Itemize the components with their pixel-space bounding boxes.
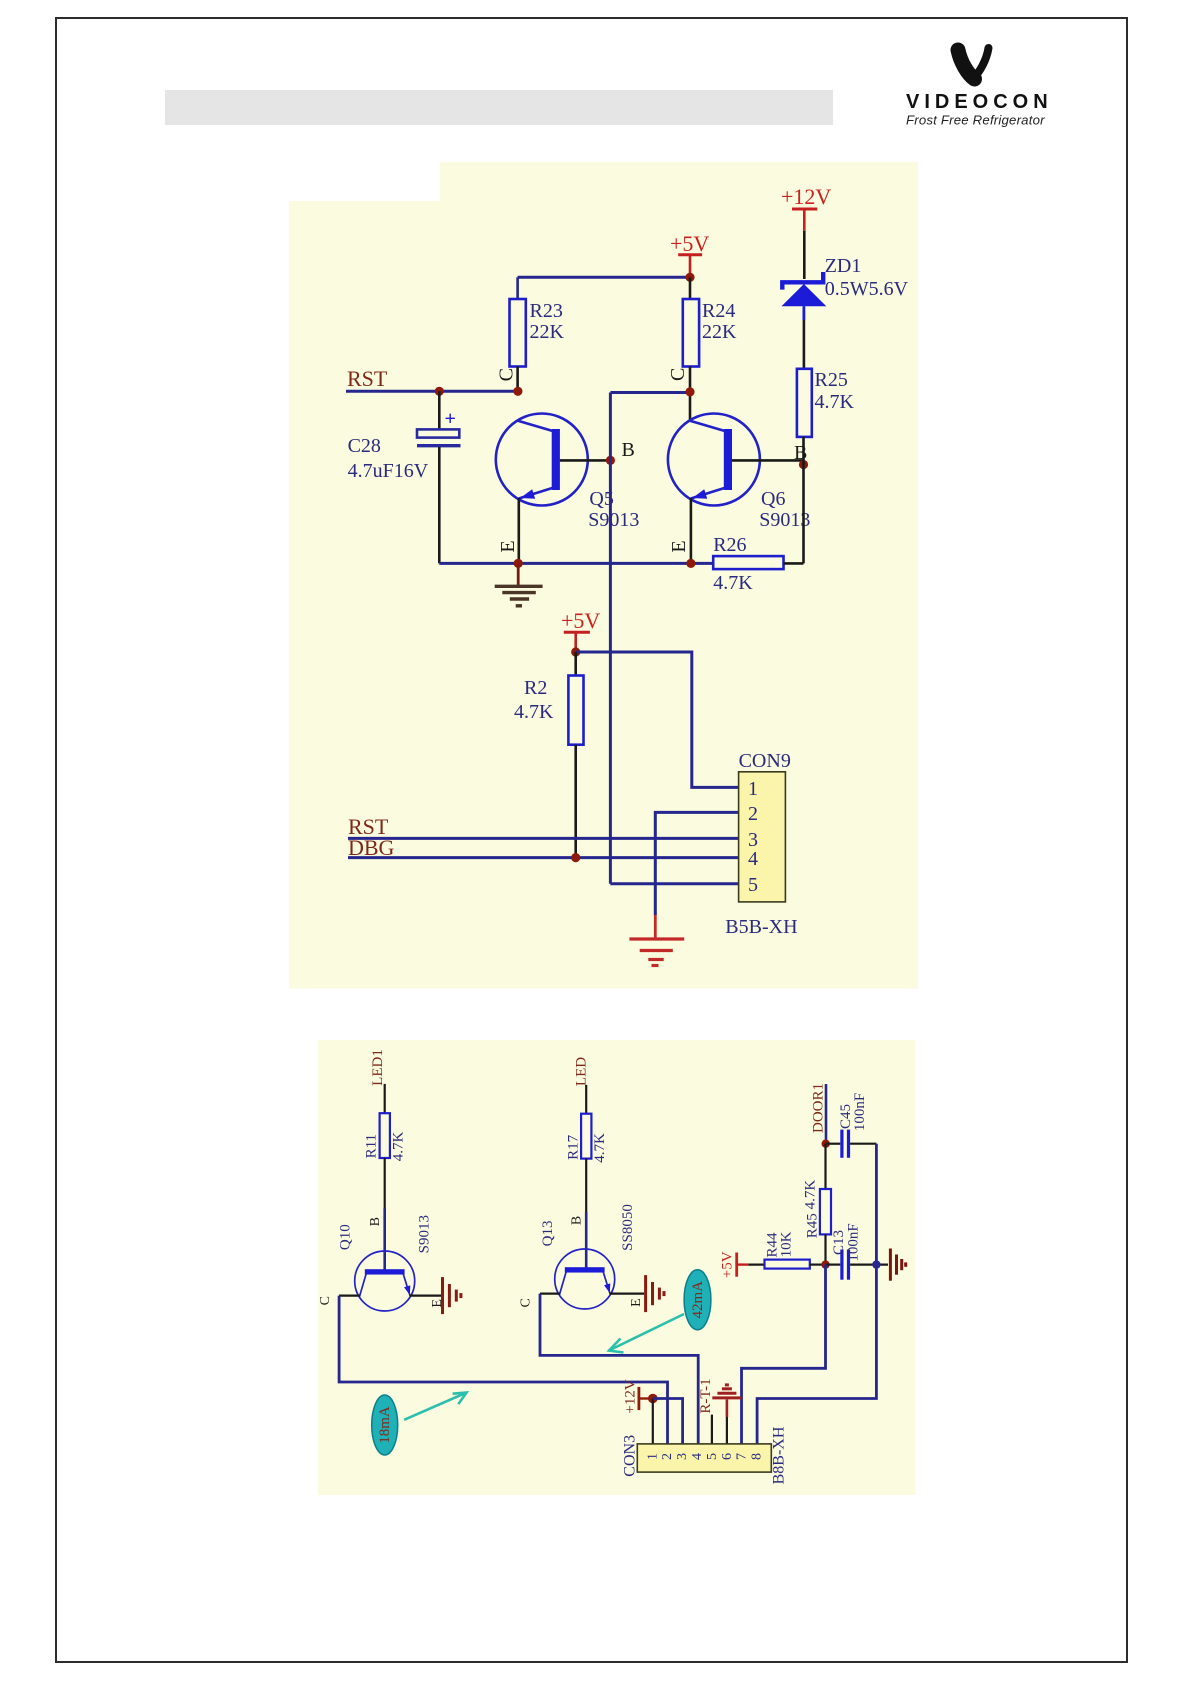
- svg-text:C: C: [518, 1298, 533, 1307]
- capacitor C13: [826, 1223, 889, 1279]
- annotation ellipse 18mA: [372, 1395, 398, 1455]
- ground at Q13 emitter: [646, 1275, 664, 1312]
- capacitor C28: [348, 408, 461, 482]
- svg-text:8: 8: [750, 1453, 765, 1460]
- wire Q5 base: [560, 459, 611, 462]
- resistor R44: [765, 1231, 810, 1268]
- wire Q5 emitter lead: [517, 498, 520, 563]
- wire R2 bottom lead: [574, 745, 577, 858]
- transistor Q6: [668, 414, 811, 532]
- wire cross coupling to Q6 collector: [610, 391, 690, 394]
- svg-text:2: 2: [748, 803, 758, 825]
- wire +5V rail: [518, 276, 690, 279]
- svg-text:R23: R23: [530, 300, 563, 322]
- svg-text:1: 1: [748, 778, 758, 800]
- node junction Q6 emitter: [686, 559, 695, 568]
- svg-text:C28: C28: [348, 435, 381, 457]
- node junction C13 / C45 return: [872, 1260, 880, 1268]
- svg-text:4.7K: 4.7K: [815, 391, 855, 413]
- svg-text:CON9: CON9: [739, 750, 791, 772]
- node junction RST / C28: [435, 387, 444, 396]
- wire DBG to CON9 pin4: [348, 856, 739, 859]
- node junction RST / Q5 collector: [513, 387, 522, 396]
- VIDEOCON logo V glyph: [958, 48, 989, 79]
- wire Q5 base vertical: [609, 393, 612, 884]
- svg-text:ZD1: ZD1: [825, 255, 862, 277]
- node +12V power symbol rotated: [622, 1379, 650, 1413]
- wire R11 to Q10 base: [384, 1158, 386, 1208]
- wire emitter rail: [439, 562, 713, 565]
- wire C45 right down to CON3 pin8: [757, 1144, 876, 1444]
- svg-text:100nF: 100nF: [852, 1093, 868, 1131]
- svg-text:22K: 22K: [530, 321, 565, 343]
- node junction CON3 pin1 +12V: [648, 1394, 658, 1404]
- resistor R11: [363, 1113, 406, 1161]
- svg-text:S9013: S9013: [588, 509, 639, 531]
- svg-text:4.7uF16V: 4.7uF16V: [348, 460, 429, 482]
- wire R24 bottom to Q6 collector: [689, 367, 692, 422]
- resistor R2: [514, 676, 584, 745]
- svg-text:LED1: LED1: [370, 1049, 386, 1086]
- ground below Q5 emitter: [495, 563, 543, 605]
- connector CON3: [621, 1426, 787, 1484]
- svg-text:C: C: [496, 368, 518, 381]
- node junction +5V rail: [685, 273, 694, 282]
- svg-text:DOOR1: DOOR1: [810, 1083, 826, 1133]
- wire zener to R25: [803, 320, 806, 369]
- wire C28 top lead: [438, 391, 441, 430]
- resistor R17: [566, 1114, 609, 1163]
- wire CON9 pin5: [610, 882, 738, 885]
- svg-text:B: B: [622, 439, 635, 461]
- wire R2 top lead: [574, 652, 577, 676]
- wire +5V to R44: [748, 1263, 764, 1265]
- svg-text:B8B-XH: B8B-XH: [771, 1426, 788, 1484]
- wire CON3 pin5 stub: [711, 1415, 713, 1444]
- svg-text:4: 4: [690, 1453, 705, 1460]
- wire R44 right to junction: [810, 1263, 826, 1265]
- svg-text:6: 6: [720, 1453, 735, 1460]
- node junction R24 / Q6 collector: [685, 387, 694, 396]
- wire Q6 emitter lead: [690, 498, 693, 563]
- svg-text:4.7K: 4.7K: [592, 1133, 608, 1163]
- wire +12V to CON3 pin3: [653, 1399, 683, 1444]
- svg-text:5: 5: [705, 1453, 720, 1460]
- wire junction down to CON3 pin7: [742, 1265, 826, 1444]
- node +5V power symbol rotated: [719, 1251, 748, 1278]
- transistor Q13: [540, 1204, 636, 1309]
- wire DOOR1 net: [825, 1084, 828, 1144]
- svg-text:5: 5: [748, 874, 758, 896]
- svg-text:4.7K: 4.7K: [514, 701, 554, 723]
- annotation arrow 18mA: [404, 1393, 466, 1420]
- svg-text:+5V: +5V: [670, 231, 709, 256]
- wire R23 top stub: [516, 277, 519, 300]
- zener diode ZD1: [782, 255, 909, 320]
- annotation ellipse 42mA: [684, 1270, 711, 1330]
- svg-text:2: 2: [660, 1453, 675, 1460]
- svg-text:3: 3: [675, 1453, 690, 1460]
- node +5V power symbol top: [670, 231, 709, 277]
- svg-text:E: E: [629, 1298, 644, 1307]
- wire Q10 emitter stub: [410, 1294, 442, 1296]
- wire Q13 collector stub: [540, 1292, 560, 1294]
- svg-text:R26: R26: [713, 534, 746, 556]
- resistor R25: [797, 369, 855, 437]
- node junction R44 / R45 / C13: [821, 1260, 829, 1268]
- svg-text:B: B: [570, 1216, 585, 1225]
- resistor R26: [713, 534, 783, 594]
- wire R17 to Q13 base: [585, 1159, 587, 1212]
- wire +12V to zener: [803, 231, 806, 279]
- svg-text:E: E: [668, 540, 690, 552]
- svg-text:0.5W5.6V: 0.5W5.6V: [825, 278, 909, 300]
- gray title bar: [165, 90, 833, 125]
- svg-text:R17: R17: [566, 1134, 582, 1160]
- node junction +5V / R2: [571, 647, 580, 656]
- svg-text:R2: R2: [524, 677, 547, 699]
- wire Q10 collector stub: [339, 1294, 360, 1296]
- resistor R24: [683, 299, 737, 367]
- wire R23 bottom to Q5 collector: [516, 367, 519, 392]
- ground at CON3 pin6 (flipped): [712, 1385, 741, 1444]
- svg-text:Q6: Q6: [761, 488, 785, 510]
- svg-text:SS8050: SS8050: [620, 1204, 636, 1251]
- svg-text:+5V: +5V: [561, 608, 600, 633]
- svg-text:42mA: 42mA: [690, 1281, 706, 1319]
- svg-text:R24: R24: [702, 300, 735, 322]
- svg-text:VIDEOCON: VIDEOCON: [906, 91, 1053, 113]
- svg-text:R25: R25: [815, 369, 848, 391]
- ground right of C13: [890, 1249, 905, 1281]
- svg-text:Frost Free Refrigerator: Frost Free Refrigerator: [906, 113, 1045, 128]
- svg-text:22K: 22K: [702, 321, 737, 343]
- svg-text:+12V: +12V: [781, 184, 831, 209]
- svg-text:C: C: [318, 1296, 333, 1305]
- wire RST: [346, 390, 518, 393]
- svg-text:C13: C13: [831, 1230, 847, 1255]
- svg-text:18mA: 18mA: [377, 1406, 393, 1444]
- wire Q6 base to B node: [732, 459, 804, 462]
- transistor Q5: [496, 414, 640, 532]
- svg-text:S9013: S9013: [416, 1215, 432, 1253]
- ground below CON9 pin2 wire: [629, 915, 684, 966]
- svg-text:B: B: [794, 442, 807, 464]
- ground at Q10 emitter: [443, 1277, 461, 1314]
- wire LED to R17: [585, 1085, 587, 1114]
- wire CON3 pin1 stub: [652, 1399, 654, 1444]
- svg-text:R11: R11: [363, 1134, 379, 1158]
- capacitor C45: [826, 1093, 877, 1158]
- svg-text:+: +: [445, 408, 456, 430]
- transistor Q10: [338, 1215, 433, 1311]
- annotation arrow 42mA: [609, 1314, 684, 1353]
- svg-text:C: C: [667, 368, 689, 381]
- svg-text:1: 1: [645, 1453, 660, 1460]
- node +5V power symbol lower: [561, 608, 600, 652]
- svg-text:7: 7: [735, 1453, 750, 1460]
- wire Q13 emitter stub: [610, 1292, 645, 1294]
- svg-text:Q10: Q10: [338, 1224, 354, 1250]
- node junction DOOR1 / C45 / R45: [822, 1140, 830, 1148]
- svg-text:CON3: CON3: [621, 1435, 638, 1477]
- node junction Q5 emitter: [514, 559, 523, 568]
- svg-text:4: 4: [748, 848, 758, 870]
- svg-text:B: B: [368, 1217, 383, 1226]
- wire RST to CON9 pin3: [348, 837, 739, 840]
- wire +5V to CON9 pin1: [576, 652, 739, 787]
- wire Q10 collector to CON3 pin2 (18mA path): [339, 1296, 667, 1444]
- node junction R2 / DBG: [571, 853, 580, 862]
- upper schematic yellow background: [289, 162, 918, 989]
- wire LED1 to R11: [384, 1084, 386, 1113]
- resistor R45: [802, 1180, 831, 1239]
- svg-text:4.7K: 4.7K: [713, 572, 753, 594]
- svg-text:+5V: +5V: [719, 1251, 735, 1278]
- svg-text:100nF: 100nF: [846, 1223, 862, 1261]
- wire DOOR1 node to R45: [824, 1144, 826, 1189]
- svg-text:B5B-XH: B5B-XH: [725, 916, 797, 938]
- wire R26 right to B column: [784, 562, 804, 565]
- lower schematic yellow background: [318, 1040, 916, 1495]
- svg-text:4.7K: 4.7K: [391, 1131, 407, 1161]
- svg-text:R45: R45: [804, 1213, 820, 1238]
- svg-text:10K: 10K: [779, 1231, 795, 1257]
- svg-text:E: E: [497, 540, 519, 552]
- node junction Q5 base: [606, 456, 615, 465]
- wire R45 bottom to junction: [824, 1234, 826, 1264]
- wire Q13 collector to CON3 pin4 (42mA path): [540, 1294, 698, 1444]
- connector CON9: [725, 750, 797, 938]
- svg-text:4.7K: 4.7K: [802, 1180, 818, 1210]
- svg-text:R-T-1: R-T-1: [698, 1378, 714, 1413]
- svg-text:RST: RST: [347, 366, 388, 391]
- wire CON9 pin2 to ground: [655, 812, 738, 915]
- wire R24 top stub: [689, 277, 692, 299]
- resistor R23: [510, 299, 565, 367]
- svg-text:LED: LED: [574, 1057, 590, 1086]
- svg-text:Q13: Q13: [540, 1220, 556, 1246]
- node junction Q6 base / R25: [799, 460, 808, 469]
- wire C28 bottom lead: [438, 447, 441, 563]
- wire R25 bottom to B node to R26: [802, 437, 805, 564]
- svg-text:+12V: +12V: [622, 1379, 638, 1413]
- node +12V power symbol: [781, 184, 831, 231]
